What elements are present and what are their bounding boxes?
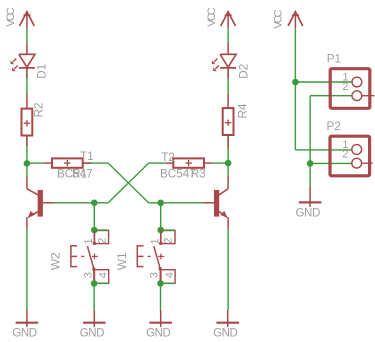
svg-text:VCC: VCC (206, 7, 218, 26)
svg-text:VCC: VCC (273, 9, 285, 28)
svg-text:4: 4 (164, 272, 176, 278)
svg-text:GND: GND (296, 207, 320, 219)
svg-text:1: 1 (150, 238, 162, 244)
svg-text:GND: GND (213, 328, 237, 340)
svg-text:P1: P1 (327, 52, 341, 65)
svg-text:GND: GND (12, 328, 36, 340)
svg-text:P2: P2 (327, 120, 341, 133)
svg-text:D2: D2 (237, 64, 250, 79)
svg-text:1: 1 (83, 238, 95, 244)
svg-text:VCC: VCC (5, 7, 17, 26)
svg-text:R1: R1 (72, 168, 87, 181)
svg-text:2: 2 (342, 81, 348, 93)
svg-text:4: 4 (97, 272, 109, 278)
svg-text:R4: R4 (237, 103, 250, 118)
svg-text:3: 3 (149, 272, 161, 278)
svg-text:3: 3 (82, 272, 94, 278)
svg-text:T2: T2 (161, 151, 175, 164)
svg-text:2: 2 (96, 238, 108, 244)
svg-text:D1: D1 (35, 64, 48, 79)
svg-text:W1: W1 (115, 252, 129, 270)
svg-text:GND: GND (80, 328, 104, 340)
svg-text:R3: R3 (191, 168, 206, 181)
svg-text:2: 2 (163, 238, 175, 244)
svg-text:R2: R2 (33, 102, 46, 117)
svg-text:2: 2 (342, 149, 348, 161)
svg-text:T1: T1 (80, 150, 94, 163)
svg-text:GND: GND (146, 328, 170, 340)
svg-text:W2: W2 (49, 252, 63, 270)
